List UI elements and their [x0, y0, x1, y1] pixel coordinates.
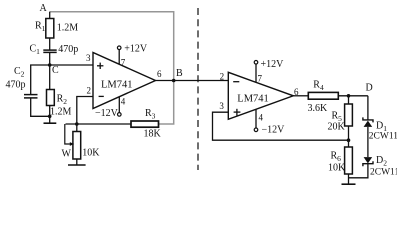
node B	[172, 79, 176, 83]
svg-text:A: A	[40, 3, 48, 14]
node divider tap	[347, 138, 351, 142]
wire D down to D1	[367, 96, 369, 120]
resistor R4	[308, 92, 338, 99]
wire y124 row	[66, 123, 132, 125]
svg-text:7: 7	[258, 74, 263, 84]
U1 input polarity marks + and -	[97, 63, 104, 97]
U1 pin 7 wire and +12V supply terminal	[118, 49, 120, 64]
svg-text:2: 2	[87, 86, 92, 96]
svg-text:10K: 10K	[82, 148, 100, 159]
U2 pin 4 wire and -12V supply terminal	[255, 109, 257, 128]
U1 pin 4 wire and -12V supply terminal	[118, 97, 120, 113]
svg-text:+12V: +12V	[124, 44, 148, 55]
wire node C to pin 3	[50, 64, 93, 66]
U2 input polarity marks - and +	[233, 82, 240, 116]
node C	[48, 63, 52, 67]
svg-text:1.2M: 1.2M	[50, 107, 72, 118]
resistor R5	[345, 104, 353, 126]
wire C1 to node C	[49, 52, 51, 65]
wire R6 bottom	[348, 174, 350, 184]
wire U2 pin3 feedback	[213, 112, 349, 140]
svg-text:470p: 470p	[6, 80, 26, 91]
svg-text:W: W	[62, 149, 72, 160]
node R5 tap	[347, 94, 351, 98]
capacitor C1	[43, 49, 56, 51]
svg-text:4: 4	[259, 113, 264, 123]
wire node C to C2 branch	[31, 65, 50, 95]
wire A stub to R1	[49, 12, 51, 19]
svg-text:LM741: LM741	[101, 80, 133, 91]
svg-text:2CW11: 2CW11	[370, 168, 397, 178]
potentiometer W body	[76, 124, 78, 132]
svg-text:−12V: −12V	[95, 108, 119, 119]
svg-text:1.2M: 1.2M	[57, 23, 79, 34]
wire R2 bottom	[49, 106, 51, 117]
resistor R6	[345, 147, 353, 174]
svg-text:−12V: −12V	[262, 125, 286, 136]
svg-text:2: 2	[220, 72, 225, 82]
svg-text:3: 3	[219, 101, 224, 111]
svg-text:470p: 470p	[58, 44, 78, 55]
svg-text:6: 6	[157, 69, 162, 79]
U2 pin 7 wire and +12V supply terminal	[255, 64, 257, 82]
zener diode D2	[364, 157, 373, 163]
wire feedback gray path A to B to R3	[50, 12, 174, 124]
svg-text:7: 7	[121, 58, 126, 68]
wire pin 2 to feedback	[77, 97, 93, 125]
resistor R1	[46, 19, 54, 39]
node pot top	[75, 122, 79, 126]
svg-text:3.6K: 3.6K	[308, 103, 329, 114]
wire R1 to C1	[49, 38, 51, 50]
svg-text:18K: 18K	[144, 129, 162, 140]
wire R4 to node D	[338, 95, 368, 97]
svg-text:3: 3	[86, 53, 91, 63]
wire R5 to R6	[348, 126, 350, 147]
svg-text:2CW11: 2CW11	[369, 132, 397, 142]
resistor R2	[47, 90, 55, 106]
svg-text:LM741: LM741	[237, 94, 268, 105]
op-amp U2	[228, 72, 293, 119]
wire bottom to diode column	[349, 164, 368, 178]
svg-text:4: 4	[121, 97, 126, 107]
ground under R2/C2	[49, 116, 51, 123]
capacitor C2	[24, 94, 38, 96]
ground under potentiometer W	[76, 159, 78, 165]
resistor R3	[131, 121, 159, 127]
svg-text:C: C	[52, 65, 59, 76]
wire output U1 to U2 pin2	[156, 80, 229, 82]
node junction C2/R2	[48, 115, 52, 119]
wire node C down to R2	[49, 65, 51, 90]
op-amp U1	[93, 53, 156, 109]
wire R5 top	[348, 96, 350, 104]
svg-text:B: B	[176, 68, 183, 79]
svg-text:20K: 20K	[328, 122, 346, 133]
wire U2 output to R4	[293, 95, 308, 97]
svg-text:10K: 10K	[328, 163, 346, 174]
svg-text:+12V: +12V	[261, 59, 285, 70]
potentiometer W wiper arrow	[65, 124, 71, 144]
svg-text:D: D	[366, 83, 373, 94]
zener diode D1	[363, 117, 373, 122]
ground under R6	[342, 183, 356, 185]
wire C2 bottom to ground junction	[31, 98, 50, 116]
dashed separator line	[197, 8, 199, 170]
